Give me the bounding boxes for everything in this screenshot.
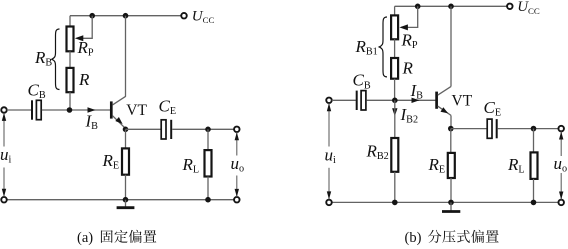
wire: bottom rail (a) — [7, 199, 235, 201]
svg-text:RP: RP — [77, 38, 94, 59]
resistor RE (a) — [122, 148, 129, 174]
node: collector junction on rail (b) — [448, 4, 454, 10]
wire: CB to transistor base — [42, 109, 110, 111]
node: RB2 bottom junction (b) — [392, 200, 398, 206]
svg-text:VT: VT — [126, 102, 147, 119]
node: RL top junction (a) — [205, 127, 211, 133]
wire: input to CB (b) — [332, 99, 356, 101]
terminal: input bottom (b) — [326, 200, 332, 206]
wire: RL to bottom rail (b) — [533, 179, 535, 203]
wire: rail to RP top — [69, 16, 71, 27]
wire: input to CB — [7, 109, 32, 111]
wire: RP to R (b) — [394, 39, 396, 58]
measure arrows u_i (a) — [2, 113, 6, 197]
terminal: output bottom (b) — [558, 200, 564, 206]
ground (b) — [442, 202, 460, 211]
resistor RB2 (b) — [391, 138, 398, 172]
terminal: input top (b) — [326, 98, 332, 104]
resistor R (b) — [391, 58, 398, 79]
svg-text:ui: ui — [325, 146, 337, 167]
transistor VT (b) — [437, 86, 452, 115]
wire: RE to ground rail — [125, 175, 127, 200]
resistor RL (a) — [205, 150, 212, 176]
resistor RL (b) — [531, 152, 538, 179]
measure arrows u_i (b) — [327, 103, 331, 199]
wire: collector to rail (a) — [125, 16, 127, 97]
svg-text:CE: CE — [159, 97, 177, 118]
svg-text:CE: CE — [484, 98, 502, 119]
resistor RE (b) — [448, 153, 455, 178]
terminal: input bottom (a) — [1, 197, 7, 203]
capacitor CE (a) — [161, 120, 166, 139]
wire: Vcc top rail (a) — [70, 15, 182, 17]
node: RL bottom junction (a) — [205, 197, 211, 203]
current arrow IB (a) — [88, 107, 96, 112]
svg-text:R: R — [402, 59, 414, 78]
wire: emitter to CE — [126, 128, 162, 130]
wire: collector to rail (b) — [450, 6, 452, 86]
node: RL bottom junction (b) — [531, 200, 537, 206]
terminal: output top (b) — [558, 126, 564, 132]
measure arrows u_o (a) — [235, 132, 239, 197]
wire: bottom rail (b) — [332, 201, 559, 203]
terminal: input top (a) — [1, 107, 7, 113]
svg-text:UCC: UCC — [517, 0, 540, 16]
current arrow IB2 (b) — [392, 108, 397, 116]
svg-text:ui: ui — [0, 145, 12, 166]
wire: CB to transistor base (b) — [367, 99, 436, 101]
wire: rail to RP top (b) — [394, 6, 396, 15]
node: emitter junction (b) — [448, 126, 454, 132]
wire: CE to output (b) — [498, 128, 559, 130]
svg-text:(a): (a) — [77, 230, 93, 246]
terminal: output top (a) — [234, 127, 240, 133]
capacitor CB (b) — [356, 91, 358, 110]
wire: CE to output — [172, 128, 234, 130]
ground (a) — [117, 200, 135, 208]
wire: node to RL (b) — [533, 129, 535, 153]
svg-text:CB: CB — [28, 81, 46, 102]
measure arrows u_o (b) — [559, 132, 563, 200]
potentiometer RP (a) — [67, 16, 93, 52]
wire: Vcc top rail (b) — [395, 5, 508, 7]
caption (b) 分压式偏置 — [405, 230, 499, 246]
node: RE bottom junction (b) — [448, 200, 454, 206]
svg-text:RL: RL — [507, 155, 525, 176]
wire: emitter to CE (b) — [451, 128, 487, 130]
node: RL top junction (b) — [531, 126, 537, 132]
svg-text:RB: RB — [34, 48, 52, 69]
svg-text:RB1: RB1 — [355, 37, 378, 58]
wire: node to RL — [207, 129, 209, 150]
wire: emitter down to RE (b) — [450, 129, 452, 153]
svg-text:RE: RE — [102, 151, 120, 172]
wire: R to base node — [69, 92, 71, 110]
svg-text:IB: IB — [85, 112, 99, 133]
svg-text:R: R — [78, 70, 90, 89]
svg-text:RB2: RB2 — [366, 142, 389, 163]
svg-text:uo: uo — [554, 154, 568, 175]
wire: base node down to RB2 — [394, 100, 396, 138]
wire: RL to bottom rail — [207, 177, 209, 200]
node: wiper tap junction on rail (b) — [415, 4, 421, 10]
wire: RE to bottom rail (b) — [450, 178, 452, 202]
wire: emitter down to RE — [125, 129, 127, 148]
svg-text:IB: IB — [410, 81, 424, 102]
resistor R (a) — [67, 68, 74, 92]
node: RE bottom junction (a) — [123, 197, 129, 203]
terminal: output bottom (a) — [234, 197, 240, 203]
wire: emitter stub (b) — [450, 115, 452, 128]
svg-text:VT: VT — [452, 93, 473, 110]
wire: R to base node (b) — [394, 79, 396, 101]
capacitor CB (a) — [31, 100, 33, 119]
svg-text:IB2: IB2 — [400, 105, 419, 126]
wire: RP to R — [69, 51, 71, 68]
brace for RB (a) — [52, 29, 60, 90]
terminal: U_CC supply (a) — [181, 13, 187, 19]
transistor VT (a) — [111, 96, 126, 128]
brace for RB1 (b) — [379, 17, 387, 77]
svg-text:RP: RP — [401, 30, 418, 51]
node: base junction (a) — [67, 107, 73, 113]
svg-text:RL: RL — [182, 155, 200, 176]
node: base junction (b) — [392, 98, 398, 104]
node: emitter junction (a) — [123, 127, 129, 133]
svg-text:(b): (b) — [405, 230, 422, 246]
wire: RB2 to bottom rail — [394, 172, 396, 203]
node: collector junction on rail (a) — [123, 13, 129, 19]
svg-text:RE: RE — [428, 155, 446, 176]
potentiometer RP (b) — [391, 6, 418, 39]
current arrow IB (b) — [412, 98, 420, 103]
svg-text:CB: CB — [353, 71, 371, 92]
node: wiper tap junction on rail (a) — [89, 13, 95, 19]
svg-text:UCC: UCC — [192, 8, 215, 25]
capacitor CE (b) — [487, 119, 492, 138]
svg-text:uo: uo — [231, 154, 245, 175]
terminal: U_CC supply (b) — [507, 4, 513, 10]
caption (a) 固定偏置 — [77, 230, 156, 246]
